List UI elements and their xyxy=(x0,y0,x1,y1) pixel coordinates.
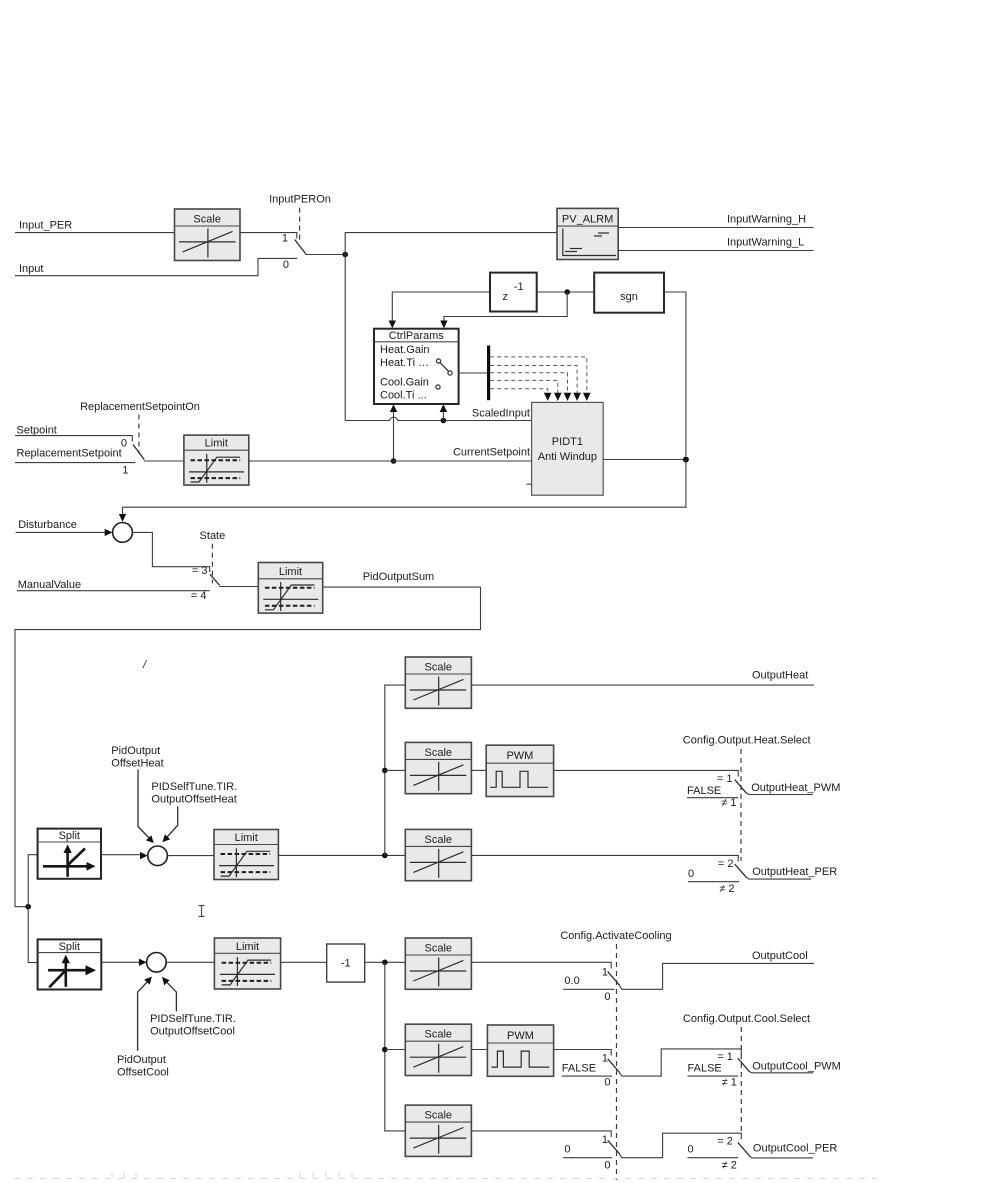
wire switch output to Limit xyxy=(144,460,184,462)
svg-text:CtrlParams: CtrlParams xyxy=(389,330,445,342)
wire Disturbance into summing circle xyxy=(16,531,106,533)
svg-text:InputWarning_L: InputWarning_L xyxy=(727,237,804,249)
wire sgn out to right rail xyxy=(664,292,686,456)
block Scale (OutputCool) xyxy=(405,938,471,989)
wire up arrow into CtrlParams bottom 2 xyxy=(442,411,444,421)
svg-text:Scale: Scale xyxy=(425,834,453,846)
svg-text:PidOutput: PidOutput xyxy=(117,1054,166,1066)
node dot on CurrentSetpoint xyxy=(391,458,397,464)
switch Heat.Select PWM blade xyxy=(735,780,747,794)
wire PWM cool to ActivateCooling switch xyxy=(554,1050,612,1056)
svg-text:OutputHeat: OutputHeat xyxy=(752,669,808,681)
block Limit (setpoint) xyxy=(184,435,249,485)
wire OutputCool_PWM xyxy=(749,1072,813,1073)
switch ActivateCooling row3 blade xyxy=(608,1140,620,1154)
svg-text:InputWarning_H: InputWarning_H xyxy=(727,213,806,225)
wire OutputHeat_PER xyxy=(746,877,811,879)
node dot heat bus lower xyxy=(382,853,388,859)
svg-text:Limit: Limit xyxy=(235,832,258,844)
wire OutputCool_PER xyxy=(749,1156,813,1158)
wire faint page boundary dashed xyxy=(14,1172,877,1179)
wire OutputCool xyxy=(619,963,814,989)
block Split (heat) xyxy=(38,829,101,879)
svg-text:≠ 1: ≠ 1 xyxy=(721,797,736,809)
svg-text:= 2: = 2 xyxy=(718,858,734,870)
svg-text:Input: Input xyxy=(19,263,43,275)
svg-text:0: 0 xyxy=(121,438,127,450)
node junction dot after switch xyxy=(342,252,348,258)
svg-text:Heat.Gain: Heat.Gain xyxy=(380,344,430,356)
svg-text:≠ 2: ≠ 2 xyxy=(719,883,734,895)
svg-text:= 2: = 2 xyxy=(717,1136,733,1148)
block Scale (heat PWM row) xyxy=(405,742,471,793)
svg-text:-1: -1 xyxy=(341,957,351,969)
wire PidOutput OffsetCool arrow into circle xyxy=(138,980,150,1051)
node dot PIDT1 out xyxy=(683,457,689,463)
svg-text:= 1: = 1 xyxy=(717,1051,733,1063)
node dot split bus xyxy=(25,904,31,910)
summing circle cool xyxy=(147,953,167,973)
svg-text:Scale: Scale xyxy=(425,943,453,955)
wire Input to switch contact 0 xyxy=(15,258,297,275)
svg-text:State: State xyxy=(200,530,226,542)
wire into z-1 and branch to CtrlParams xyxy=(392,292,490,322)
block z-1 xyxy=(490,273,537,312)
svg-text:OutputCool_PER: OutputCool_PER xyxy=(753,1142,837,1154)
wire Setpoint to contact 0 xyxy=(15,436,132,442)
svg-text:Scale: Scale xyxy=(425,747,453,759)
node dot cool bus middle xyxy=(382,1047,388,1053)
wire 0 contact row3 xyxy=(563,1157,612,1159)
svg-text:OutputCool: OutputCool xyxy=(752,950,808,962)
wire OutputOffsetCool arrow into circle xyxy=(165,980,177,1012)
wire feedback down-left to summing circle xyxy=(123,460,686,516)
wire dashed param 3 xyxy=(490,373,567,393)
svg-text:Split: Split xyxy=(59,830,80,842)
svg-text:Scale: Scale xyxy=(425,662,453,674)
wire junction up to PV_ALRM xyxy=(345,233,557,255)
svg-text:FALSE: FALSE xyxy=(688,1062,722,1074)
block sgn xyxy=(594,273,664,313)
wire 0.0 contact xyxy=(563,988,614,990)
wire OutputOffsetHeat arrow into circle xyxy=(166,806,178,838)
wire dashed param 5 xyxy=(490,389,548,393)
wire Scale cool row1 to ActivateCooling switch xyxy=(471,962,611,968)
wire FALSE cool select xyxy=(688,1075,739,1077)
svg-text:= 3: = 3 xyxy=(192,565,208,577)
svg-text:Input_PER: Input_PER xyxy=(19,220,72,232)
wire PidOutput arrow into circle xyxy=(138,770,151,841)
svg-text:0: 0 xyxy=(604,991,610,1003)
svg-text:sgn: sgn xyxy=(620,291,638,303)
wire Scale to PWM heat xyxy=(471,769,486,771)
block -1 gain xyxy=(327,944,365,982)
wire ActivateCooling dashed xyxy=(616,944,618,1180)
wire Scale to PWM cool xyxy=(471,1049,487,1051)
wire Limit cool to -1 xyxy=(281,961,327,963)
svg-text:z: z xyxy=(503,291,509,303)
svg-text:FALSE: FALSE xyxy=(562,1062,596,1074)
block Limit (manual) xyxy=(258,563,322,614)
svg-text:ManualValue: ManualValue xyxy=(18,579,81,591)
svg-text:PidOutputSum: PidOutputSum xyxy=(363,571,435,583)
wire PWM heat to select switch xyxy=(554,770,739,776)
switch selector inside CtrlParams xyxy=(436,359,452,389)
svg-text:0: 0 xyxy=(688,868,694,880)
wire Scale heat PER to select switch xyxy=(471,855,738,861)
svg-text:1: 1 xyxy=(602,1134,608,1146)
block Scale (cool PER row) xyxy=(405,1105,471,1156)
summing circle heat xyxy=(148,846,168,866)
wire InputWarning_L xyxy=(618,250,814,252)
block Split (cool) xyxy=(38,939,102,989)
node parameter bar xyxy=(487,346,490,401)
wire CtrlParams out to bar xyxy=(459,372,487,374)
wire State dashed xyxy=(211,544,213,584)
switch State blade xyxy=(210,574,220,585)
svg-text:OutputHeat_PER: OutputHeat_PER xyxy=(752,866,837,878)
svg-text:Cool.Ti ...: Cool.Ti ... xyxy=(380,389,427,401)
svg-text:OutputOffsetHeat: OutputOffsetHeat xyxy=(151,794,236,806)
wire InputPEROn dashed xyxy=(299,208,301,244)
arrowhead into summing circle top xyxy=(119,514,126,522)
svg-text:OutputCool_PWM: OutputCool_PWM xyxy=(752,1061,841,1073)
svg-text:Heat.Ti …: Heat.Ti … xyxy=(380,357,429,369)
wire ManualValue to contact 4 xyxy=(17,590,210,592)
wire ScaledInput into PIDT1 with hop xyxy=(345,417,531,420)
arrowhead into CtrlParams top 1 xyxy=(389,321,396,329)
svg-text:Cool.Gain: Cool.Gain xyxy=(380,376,429,388)
svg-text:OutputHeat_PWM: OutputHeat_PWM xyxy=(751,782,840,794)
wire Scale out to switch contact 1 xyxy=(240,233,297,239)
svg-text:1: 1 xyxy=(122,465,128,477)
svg-text:= 4: = 4 xyxy=(191,590,207,602)
svg-text:PIDSelfTune.TIR.: PIDSelfTune.TIR. xyxy=(150,1013,236,1025)
svg-text:0: 0 xyxy=(283,259,289,271)
wire ReplacementSetpoint to contact 1 xyxy=(15,462,135,464)
wire Input_PER to Scale xyxy=(15,232,175,234)
svg-text:Scale: Scale xyxy=(193,214,221,226)
svg-text:1: 1 xyxy=(282,232,288,244)
summing circle 1 xyxy=(113,523,133,543)
svg-text:CurrentSetpoint: CurrentSetpoint xyxy=(453,446,530,458)
wire Split cool out to circle xyxy=(101,961,140,963)
switch Heat.Select PER blade xyxy=(735,864,747,878)
svg-text:FALSE: FALSE xyxy=(687,785,721,797)
block PV_ALRM xyxy=(557,208,618,259)
wire bus to Split heat xyxy=(28,855,37,907)
svg-text:Disturbance: Disturbance xyxy=(18,519,77,531)
wire Limit out CurrentSetpoint to PIDT1 xyxy=(249,460,532,462)
wire 0 contact select xyxy=(688,1157,739,1159)
switch ActivateCooling row1 blade xyxy=(608,972,620,986)
svg-text:-1: -1 xyxy=(514,281,524,293)
node junction dot z-sgn xyxy=(564,289,570,295)
svg-text:= 1: = 1 xyxy=(717,773,733,785)
wire PIDT1 output to right rail xyxy=(603,459,686,461)
block Scale (Input_PER scaling) xyxy=(175,209,241,261)
wire z-1 to sgn xyxy=(537,291,595,293)
svg-text:PV_ALRM: PV_ALRM xyxy=(562,213,613,225)
svg-text:Config.Output.Heat.Select: Config.Output.Heat.Select xyxy=(683,735,811,747)
block PIDT1 Anti Windup xyxy=(527,402,604,495)
node dot cool bus top xyxy=(382,960,388,966)
wire dot down to CtrlParams top 2 xyxy=(444,292,567,322)
wire row2 to Cool.Select switch xyxy=(619,1049,741,1076)
wire circle to Limit heat xyxy=(167,855,214,857)
wire cool bus to PWM row xyxy=(385,1049,406,1051)
svg-text:Scale: Scale xyxy=(425,1110,453,1122)
switch Cool.Select PWM blade xyxy=(738,1058,750,1072)
wire OutputHeat_PWM xyxy=(746,793,813,795)
svg-text:OffsetCool: OffsetCool xyxy=(117,1067,169,1079)
svg-text:0.0: 0.0 xyxy=(564,975,579,987)
arrowhead into CtrlParams top 2 xyxy=(440,321,447,329)
svg-text:0: 0 xyxy=(564,1143,570,1155)
switch ActivateCooling row2 blade xyxy=(608,1059,620,1073)
svg-text:0: 0 xyxy=(604,1160,610,1172)
block Limit (heat) xyxy=(214,830,278,880)
wire circle cool to Limit xyxy=(166,961,214,963)
block Scale (heat PER row) xyxy=(405,829,471,880)
svg-text:Limit: Limit xyxy=(279,566,302,578)
svg-text:0: 0 xyxy=(688,1143,694,1155)
wire Scale cool row3 to ActivateCooling switch xyxy=(471,1131,611,1137)
stray cursor artifact xyxy=(199,906,205,917)
wire ReplacementSetpointOn dashed xyxy=(138,415,140,454)
wire dashed param 2 xyxy=(490,366,577,394)
svg-text:1: 1 xyxy=(602,966,608,978)
svg-text:InputPEROn: InputPEROn xyxy=(269,194,331,206)
block Scale (cool PWM row) xyxy=(405,1024,471,1075)
svg-text:ReplacementSetpointOn: ReplacementSetpointOn xyxy=(80,401,200,413)
node dot heat bus middle xyxy=(382,768,388,774)
svg-text:PIDSelfTune.TIR.: PIDSelfTune.TIR. xyxy=(151,781,237,793)
wire Limit heat out to scale bus xyxy=(278,854,405,856)
wire switch output to Limit xyxy=(219,586,258,588)
svg-text:Split: Split xyxy=(59,941,80,953)
svg-text:Limit: Limit xyxy=(205,438,228,450)
wire FALSE heat xyxy=(687,797,738,799)
switch ReplacementSetpointOn blade xyxy=(133,445,144,460)
wire dashed param 1 xyxy=(490,357,587,393)
wire Cool.Select dashed xyxy=(740,1027,742,1133)
block Limit (cool) xyxy=(214,938,280,989)
wire OutputHeat xyxy=(471,684,814,686)
svg-text:PidOutput: PidOutput xyxy=(111,745,160,757)
wire Heat.Select dashed xyxy=(740,749,742,861)
svg-text:ScaledInput: ScaledInput xyxy=(472,408,530,420)
switch InputPEROn blade xyxy=(295,240,307,255)
switch Cool.Select PER blade xyxy=(738,1142,750,1156)
block CtrlParams xyxy=(374,329,459,404)
block PWM (cool) xyxy=(487,1025,553,1076)
svg-text:PWM: PWM xyxy=(506,750,533,762)
wire FALSE cool row2 xyxy=(562,1075,612,1077)
svg-text:OutputOffsetCool: OutputOffsetCool xyxy=(150,1026,235,1038)
wire cool bus vertical xyxy=(385,962,406,1131)
svg-text:1: 1 xyxy=(602,1053,608,1065)
svg-text:Anti Windup: Anti Windup xyxy=(538,451,597,463)
wire switch output xyxy=(306,254,346,256)
svg-text:Setpoint: Setpoint xyxy=(17,425,57,437)
wire up arrow into CtrlParams bottom 1 xyxy=(393,411,395,462)
svg-text:OffsetHeat: OffsetHeat xyxy=(111,757,163,769)
wire heat bus to Scale PWM row xyxy=(385,769,406,771)
wire summing circle to State switch contact 3 xyxy=(132,532,209,572)
svg-text:Scale: Scale xyxy=(425,1029,453,1041)
wire heat bus vertical xyxy=(385,685,406,855)
wire 0 heat xyxy=(688,881,739,883)
wire PidOutputSum loop to bottom left xyxy=(15,587,481,907)
wire row3 to Cool.Select switch xyxy=(619,1133,741,1158)
block PWM (heat) xyxy=(486,745,553,796)
svg-text:Config.Output.Cool.Select: Config.Output.Cool.Select xyxy=(683,1013,810,1025)
wire dashed param 4 xyxy=(490,380,558,393)
svg-text:PIDT1: PIDT1 xyxy=(552,436,583,448)
svg-text:ReplacementSetpoint: ReplacementSetpoint xyxy=(17,448,122,460)
wire InputWarning_H xyxy=(618,227,814,229)
svg-text:0: 0 xyxy=(604,1077,610,1089)
wire bus to Split cool xyxy=(28,907,37,963)
wire Split heat out to circle xyxy=(101,854,141,856)
node dot on ScaledInput xyxy=(441,418,447,424)
wire junction down to ScaledInput xyxy=(344,255,346,421)
svg-text:PWM: PWM xyxy=(507,1030,534,1042)
block Scale (OutputHeat) xyxy=(405,657,471,708)
wire -1 out to cool bus xyxy=(365,961,406,963)
svg-text:≠ 1: ≠ 1 xyxy=(722,1077,737,1089)
svg-text:Limit: Limit xyxy=(236,941,259,953)
svg-text:Config.ActivateCooling: Config.ActivateCooling xyxy=(560,930,671,942)
svg-text:≠ 2: ≠ 2 xyxy=(722,1160,737,1172)
